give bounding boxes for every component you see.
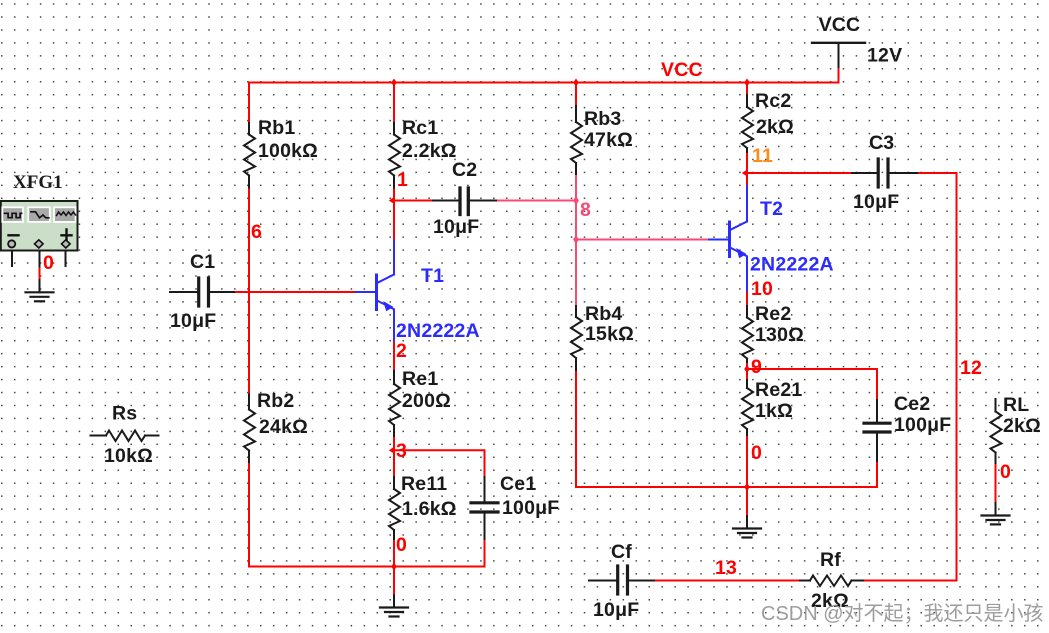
svg-text:100kΩ: 100kΩ: [258, 140, 318, 162]
svg-text:200Ω: 200Ω: [402, 390, 451, 412]
XFG1 instrument box: [1, 201, 78, 251]
wire Rc2 column top: [746, 83, 748, 96]
wire node11 horizontal to C3: [747, 172, 852, 174]
svg-text:Rb2: Rb2: [257, 390, 294, 412]
wire Rc2 bottom to node11: [746, 152, 748, 186]
svg-text:Re2: Re2: [755, 303, 791, 325]
wire VCC top rail: [249, 82, 839, 84]
node dot node8 tee: [573, 235, 579, 244]
node dot rail x747: [744, 79, 750, 87]
wire node3 horizontal to Ce1 branch: [394, 450, 485, 477]
svg-text:0: 0: [43, 252, 54, 274]
resistor RL: [991, 399, 1002, 463]
svg-text:10μF: 10μF: [433, 216, 479, 238]
capacitor Cf: [589, 566, 654, 594]
svg-text:10μF: 10μF: [170, 310, 216, 332]
wire C3 right to node12 corner: [917, 173, 957, 581]
wire VCC red stub: [838, 69, 840, 83]
svg-text:0: 0: [1000, 461, 1011, 483]
svg-text:CSDN @对不起；我还只是小孩: CSDN @对不起；我还只是小孩: [761, 602, 1044, 625]
wire RL bottom red: [995, 463, 997, 503]
capacitor C3: [852, 159, 917, 187]
svg-text:2.2kΩ: 2.2kΩ: [402, 140, 457, 162]
svg-text:Rb4: Rb4: [585, 303, 622, 325]
wire node9 horizontal to Ce2 top: [747, 369, 877, 400]
wire Ce1 bottom to ground rail: [484, 539, 486, 567]
svg-text:Rf: Rf: [820, 549, 841, 571]
wire T2 base horizontal pink: [576, 239, 709, 241]
svg-text:10: 10: [751, 278, 773, 300]
svg-text:VCC: VCC: [661, 59, 703, 81]
resistor Re2: [742, 306, 753, 362]
wire Rb2 bottom to ground rail: [249, 462, 485, 567]
wire XFG mid black to ground: [39, 247, 41, 292]
svg-text:2N2222A: 2N2222A: [396, 320, 480, 342]
svg-text:C2: C2: [452, 159, 477, 181]
svg-text:9: 9: [751, 356, 762, 378]
svg-text:15kΩ: 15kΩ: [585, 323, 634, 345]
svg-text:RL: RL: [1003, 394, 1029, 416]
wire node9 to Re21: [746, 369, 748, 380]
node dot node1: [389, 197, 395, 205]
wire Ce2 bottom red: [876, 461, 878, 487]
resistor Rs (horizontal): [91, 431, 159, 442]
resistor Rb1: [244, 123, 255, 188]
wire Re21 bottom to node0 junction: [746, 435, 748, 487]
svg-text:T1: T1: [421, 265, 444, 287]
wire node1 horizontal to C2: [394, 200, 433, 202]
svg-text:Rs: Rs: [112, 403, 137, 425]
svg-text:C3: C3: [869, 132, 894, 154]
svg-text:47kΩ: 47kΩ: [584, 129, 633, 151]
resistor Re1: [389, 371, 400, 436]
svg-text:Cf: Cf: [611, 541, 632, 563]
svg-text:Rc2: Rc2: [755, 90, 791, 112]
wire Re1 bottom to node3: [393, 436, 395, 450]
svg-text:10kΩ: 10kΩ: [104, 445, 153, 467]
ground below XFG1: [26, 292, 54, 301]
wire XFG left stub: [11, 247, 13, 266]
svg-text:130Ω: 130Ω: [755, 324, 804, 346]
svg-text:12: 12: [960, 357, 982, 379]
svg-text:100μF: 100μF: [894, 414, 951, 436]
wire Rb3 column top: [575, 83, 577, 107]
wire black ground lead x747: [746, 516, 748, 529]
junction node dots: [389, 79, 750, 571]
svg-text:XFG1: XFG1: [13, 172, 63, 193]
resistor Rc2: [742, 95, 753, 152]
svg-text:11: 11: [752, 145, 773, 167]
wire ground stub below rail at x394: [393, 567, 395, 596]
node dot node3: [389, 446, 395, 454]
transistor Q T2: [709, 186, 747, 291]
wire Rb1 to Rb2 (net 6 mid): [248, 188, 250, 395]
svg-text:C1: C1: [190, 251, 215, 273]
wire Rb4 bottom red down and across to Ce2 (net 0): [576, 370, 877, 487]
resistor Re11: [389, 477, 400, 539]
wire Rf right to node12 bottom: [863, 580, 957, 582]
capacitor Ce1 (horizontal plates): [471, 477, 498, 539]
resistor Rb3: [571, 106, 582, 174]
svg-text:Rc1: Rc1: [402, 117, 438, 139]
svg-text:2kΩ: 2kΩ: [756, 116, 794, 138]
resistor Rb4: [571, 306, 582, 370]
wire Re11 bottom to ground rail (net 0): [393, 539, 395, 567]
wire T2 emitter to Re2 (net 10): [746, 291, 748, 307]
svg-text:2: 2: [396, 340, 407, 362]
wire XFG mid terminal red segment (net 0): [39, 267, 41, 281]
svg-text:12V: 12V: [867, 45, 902, 67]
capacitor Ce2 (horizontal plates): [864, 400, 890, 461]
resistor Rf (horizontal): [800, 576, 863, 587]
svg-text:2kΩ: 2kΩ: [1003, 415, 1041, 437]
wire T1 emitter to Re1 (net 2): [393, 340, 395, 371]
svg-text:Re11: Re11: [401, 473, 447, 495]
wire Rb3 bottom pink (net 8): [575, 174, 577, 201]
svg-text:1.6kΩ: 1.6kΩ: [402, 498, 457, 520]
ground below x747: [733, 529, 761, 538]
svg-text:Rb1: Rb1: [258, 117, 295, 139]
node dot rail x394: [391, 79, 397, 87]
wire Cf right to Rf left (net 13): [654, 580, 800, 582]
resistor Rb2: [244, 395, 255, 463]
svg-text:0: 0: [751, 442, 762, 464]
node dot ground rail x394: [391, 563, 397, 571]
resistor Rc1: [389, 123, 400, 188]
capacitor C2: [433, 188, 496, 215]
node dot node11: [742, 169, 748, 177]
svg-text:13: 13: [715, 557, 737, 579]
node dot node0 mid: [744, 483, 750, 491]
ground below x394: [380, 608, 408, 617]
wire node8 down to T2 base tee: [575, 201, 577, 240]
wire Re2 bottom to node9: [746, 362, 748, 369]
svg-text:Re1: Re1: [402, 368, 438, 390]
wire column Rb1/Rb2 upper (net 6): [248, 83, 250, 124]
svg-text:6: 6: [251, 221, 262, 243]
svg-text:1: 1: [397, 169, 408, 191]
capacitor C1: [170, 278, 234, 306]
wire node8 tee down to Rb4 pink: [575, 240, 577, 307]
node dot node9: [744, 365, 750, 373]
svg-text:Ce2: Ce2: [894, 393, 930, 415]
transistor Q T1: [356, 241, 394, 341]
svg-text:10μF: 10μF: [853, 191, 899, 213]
wire C1 right to T1 base (net 6): [234, 291, 356, 293]
wire node0 down to ground (red part): [746, 487, 748, 516]
svg-text:24kΩ: 24kΩ: [259, 416, 308, 438]
wire node3 to Re11: [393, 450, 395, 477]
svg-text:Re21: Re21: [755, 379, 802, 401]
svg-text:T2: T2: [760, 198, 783, 220]
svg-text:0: 0: [396, 534, 407, 556]
resistor Re21: [742, 380, 753, 435]
wire XFG right stub: [65, 247, 67, 266]
svg-text:Rb3: Rb3: [584, 108, 621, 130]
node dot rail x576: [573, 79, 579, 87]
wire C2 right to node8 pink: [495, 200, 576, 202]
wires layer: [12, 83, 996, 608]
svg-text:100μF: 100μF: [502, 497, 559, 519]
svg-text:8: 8: [580, 199, 591, 221]
wire black ground lead x394: [393, 595, 395, 607]
svg-text:2N2222A: 2N2222A: [750, 254, 834, 276]
wire Rc1 column top (VCC to Rc1): [393, 83, 395, 124]
node dot node8: [573, 196, 579, 205]
svg-text:10μF: 10μF: [593, 599, 639, 621]
svg-text:1kΩ: 1kΩ: [755, 400, 793, 422]
ground below RL: [982, 516, 1010, 525]
wire black ground lead RL: [995, 503, 997, 516]
wire Rc1 bottom to node1: [393, 188, 395, 241]
VCC supply symbol: [812, 43, 865, 69]
svg-text:Ce1: Ce1: [500, 473, 536, 495]
svg-text:3: 3: [396, 440, 407, 462]
svg-text:VCC: VCC: [819, 14, 861, 36]
